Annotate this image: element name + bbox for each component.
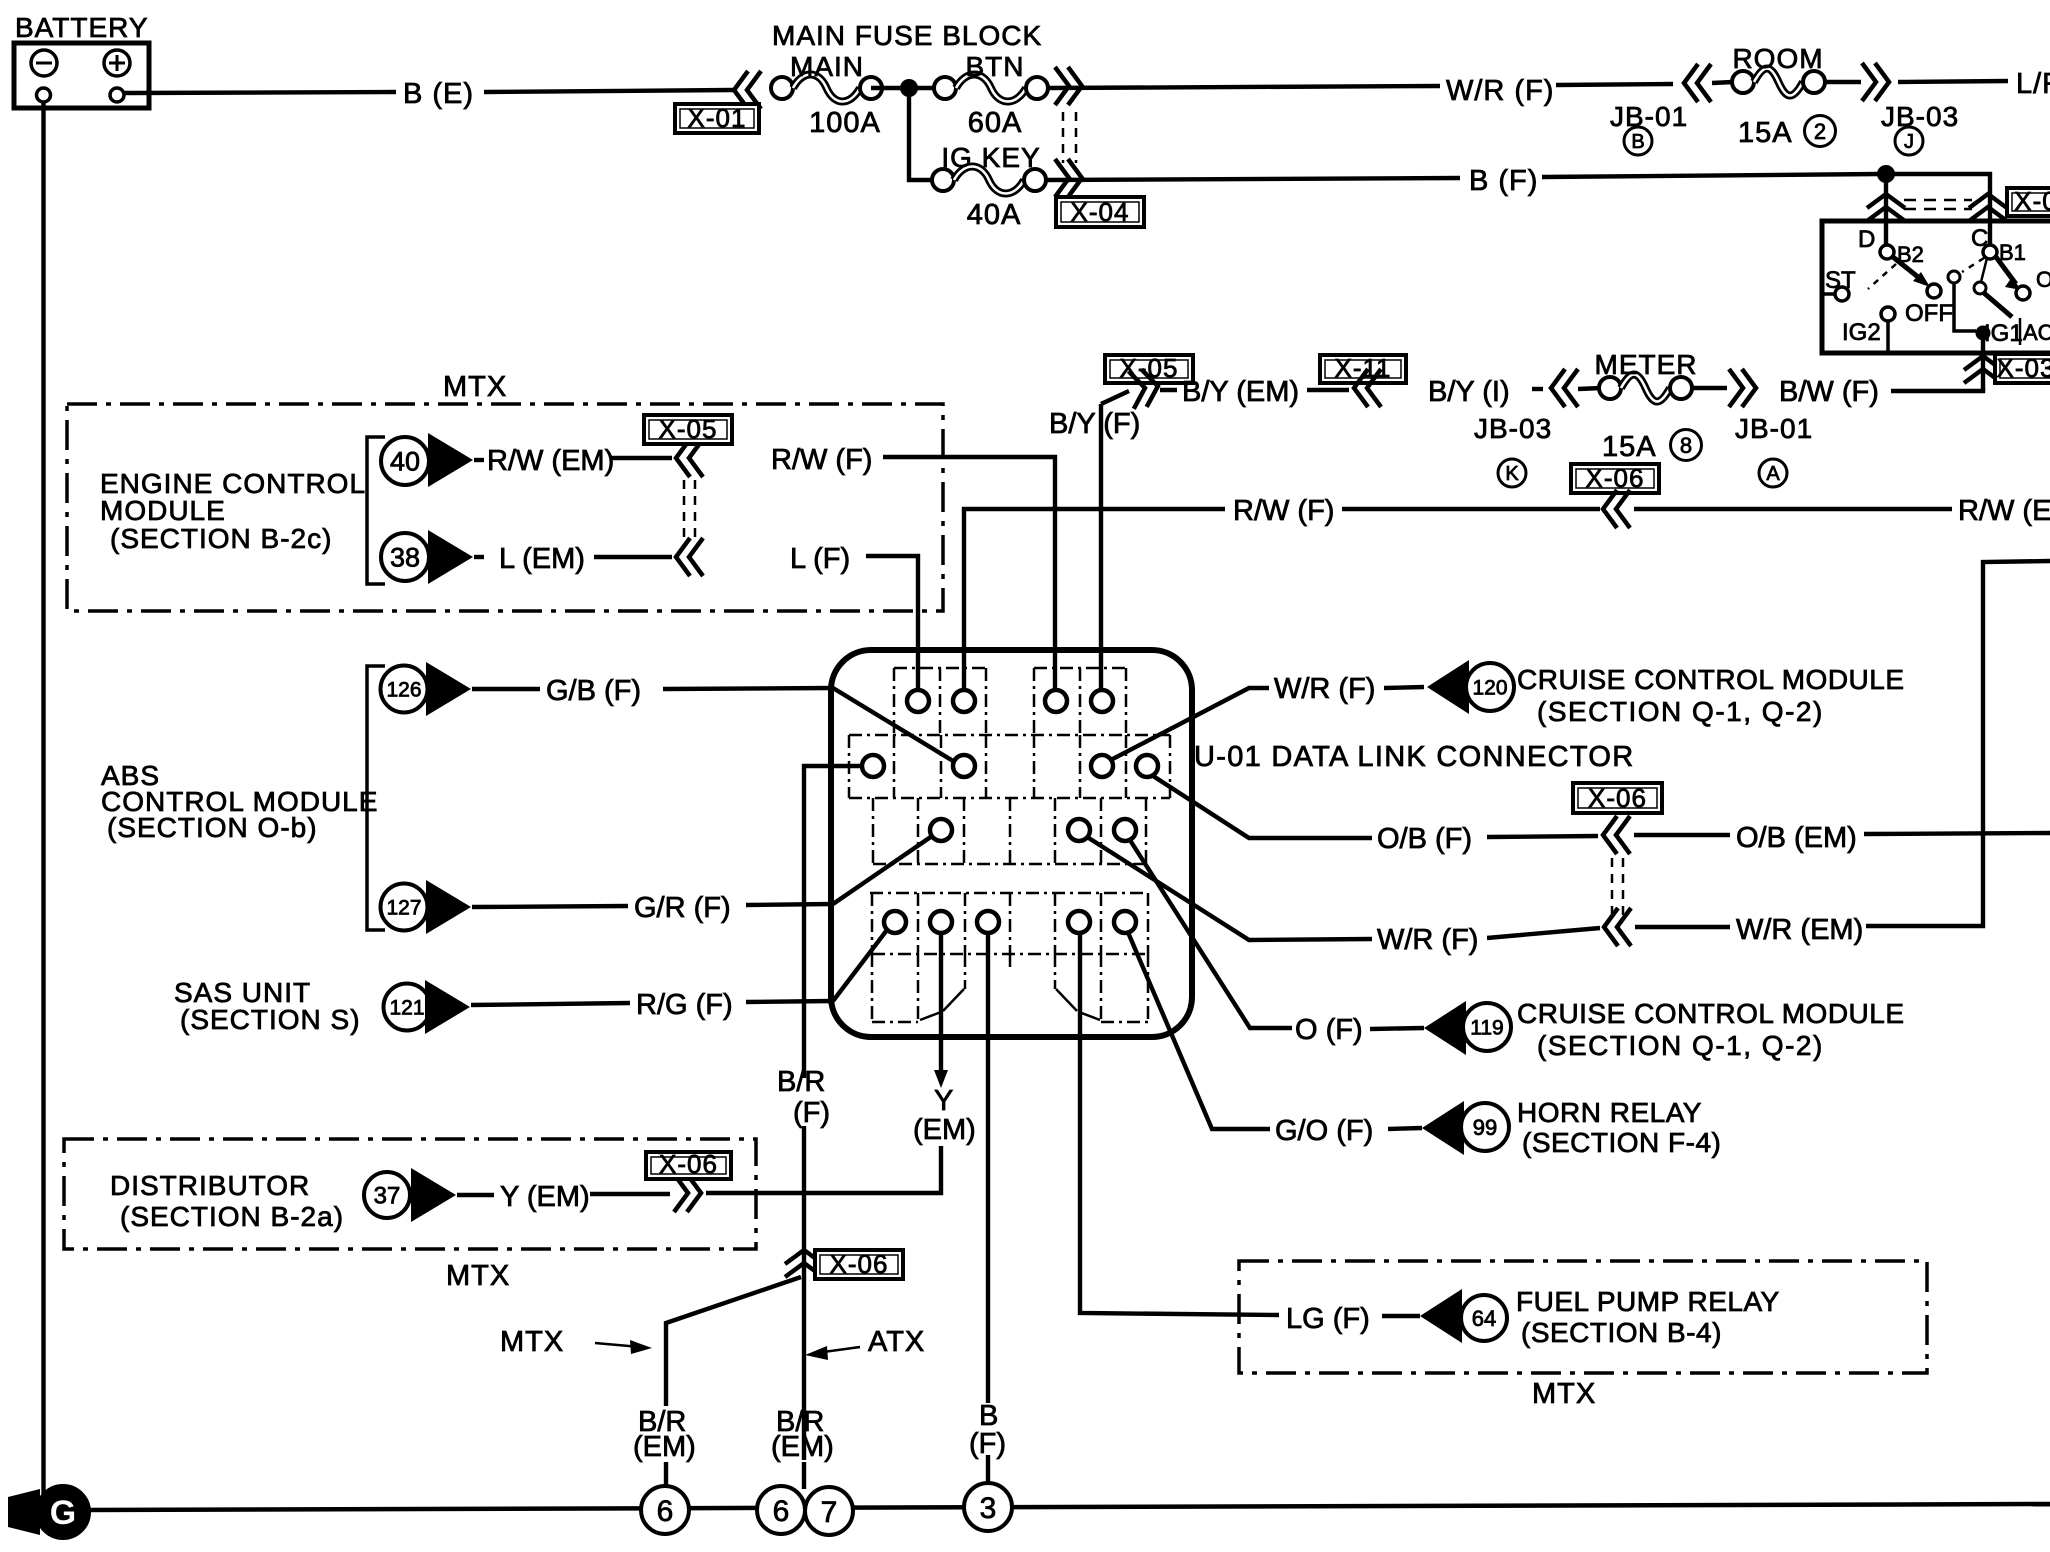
connector X-05 chevron rw: [676, 439, 703, 477]
svg-text:HORN RELAY: HORN RELAY: [1517, 1097, 1702, 1128]
svg-text:(SECTION Q-1, Q-2): (SECTION Q-1, Q-2): [1537, 696, 1824, 727]
svg-text:100A: 100A: [809, 107, 881, 139]
wire B/Y em to X-11: [1307, 388, 1349, 392]
ABS pin 127 arrow: [426, 880, 471, 934]
distributor pin 37: [364, 1172, 410, 1218]
ground circle 7: [805, 1487, 853, 1535]
ECM pin 40: [381, 437, 429, 485]
svg-text:40: 40: [390, 447, 420, 477]
svg-text:(SECTION B-2a): (SECTION B-2a): [120, 1201, 344, 1232]
fuel pump dashed box: [1239, 1261, 1927, 1373]
svg-text:(F): (F): [793, 1097, 830, 1129]
connector X-05 chevron L: [676, 538, 703, 576]
wire B/Y i stub: [1532, 387, 1543, 391]
svg-text:8: 8: [1680, 433, 1692, 458]
wire room fuse stub left: [1712, 82, 1733, 83]
ground symbol G: [8, 1489, 40, 1535]
wire W/R to cruise diagonal: [1105, 688, 1269, 763]
wire room fuse stub right: [1824, 80, 1861, 84]
svg-text:99: 99: [1473, 1115, 1497, 1140]
ABS pin 127: [381, 884, 428, 931]
svg-text:X-01: X-01: [688, 103, 747, 133]
DLC pin r2c3: [1091, 755, 1113, 777]
wire W/R to arrow: [1384, 687, 1424, 688]
label circled 8: [1671, 430, 1702, 461]
svg-text:METER: METER: [1595, 349, 1698, 380]
svg-text:64: 64: [1472, 1306, 1496, 1331]
connector X-06 chevron atx: [785, 1250, 823, 1277]
connector X-06 label dist: [646, 1152, 731, 1179]
wire R/W (F) long right: [1634, 507, 1952, 511]
cruise 120 arrow: [1427, 660, 1469, 714]
wire O/B mid: [1487, 836, 1598, 837]
battery B-01 box: [14, 43, 149, 108]
svg-text:126: 126: [386, 679, 421, 702]
DLC U-01 outline: [831, 650, 1192, 1037]
svg-text:O/B (F): O/B (F): [1377, 823, 1472, 855]
svg-text:W/R (F): W/R (F): [1446, 75, 1554, 107]
svg-text:B/Y (F): B/Y (F): [1049, 408, 1140, 440]
connector X-04 label: [1056, 197, 1144, 227]
wire R/W (F) to DLC pin3: [883, 457, 1055, 690]
ABS pin 126 arrow: [426, 662, 471, 716]
fuse METER 15A: [1599, 377, 1621, 399]
wire W/R (F) left: [1048, 86, 1440, 88]
svg-text:MTX: MTX: [1532, 1378, 1596, 1410]
wire to L/R right edge: [1898, 81, 2008, 82]
connector X-04 dashed link: [1062, 112, 1065, 163]
ignition pin IG2: [1881, 307, 1895, 321]
connector X-06 chevron wr: [1604, 908, 1631, 946]
ABS pin bracket: [367, 666, 385, 930]
svg-text:JB-01: JB-01: [1610, 101, 1688, 132]
ignition junction IG1: [1976, 326, 1991, 341]
wire B/Y em stub: [1160, 388, 1177, 392]
connector X-06 chevron ob: [1603, 816, 1630, 854]
svg-text:O/B (EM): O/B (EM): [1736, 822, 1857, 854]
ABS pin 126: [381, 666, 428, 713]
wire Y em stub: [457, 1193, 494, 1197]
svg-text:B/Y (EM): B/Y (EM): [1182, 376, 1299, 408]
wire O diagonal: [1128, 837, 1292, 1028]
wire Y stub down-arrow: [939, 933, 943, 1073]
battery positive pin: [110, 88, 124, 102]
wire atx to ground: [802, 1462, 806, 1489]
wire B F vertical: [986, 933, 990, 1403]
junction dot main/btn: [900, 79, 918, 97]
wire Y em to stub up: [706, 1146, 941, 1193]
svg-text:119: 119: [1470, 1017, 1503, 1040]
DLC pin r2c2: [953, 755, 975, 777]
wire B (F) to ignition C: [1893, 174, 1990, 246]
wire meter fuse stub right: [1691, 386, 1727, 390]
svg-text:R/W (EM: R/W (EM: [1958, 495, 2050, 527]
svg-text:(SECTION S): (SECTION S): [180, 1004, 361, 1035]
svg-text:A: A: [1766, 463, 1780, 485]
svg-text:FUEL PUMP RELAY: FUEL PUMP RELAY: [1516, 1286, 1780, 1317]
wire R/G diagonal: [833, 926, 890, 1001]
svg-text:(SECTION Q-1, Q-2): (SECTION Q-1, Q-2): [1537, 1030, 1824, 1061]
svg-text:BTN: BTN: [966, 51, 1025, 82]
wire main-btn: [871, 86, 945, 90]
fuse ROOM 15A: [1732, 71, 1754, 93]
svg-text:G/B (F): G/B (F): [546, 675, 641, 707]
svg-text:IG2: IG2: [1842, 319, 1881, 346]
svg-text:X-06: X-06: [1586, 463, 1645, 493]
svg-text:G/R (F): G/R (F): [634, 892, 731, 924]
wire Y em: [590, 1192, 670, 1196]
DLC pin top1: [907, 690, 929, 712]
fuse IG KEY 40A: [932, 169, 954, 191]
label circled 2: [1805, 116, 1836, 147]
connector X-05 dashed link ecm: [683, 480, 686, 537]
wire R/W (F) long left: [964, 509, 1225, 690]
cruise 119 circle: [1463, 1003, 1511, 1051]
SAS pin 121 arrow: [425, 980, 470, 1034]
svg-text:X-04: X-04: [1071, 197, 1130, 227]
svg-text:R/W (F): R/W (F): [1233, 495, 1334, 527]
wire B (E) from battery: [124, 92, 396, 93]
svg-text:6: 6: [773, 1495, 790, 1528]
svg-text:W/R (F): W/R (F): [1377, 924, 1478, 956]
wire G/B stub: [472, 687, 540, 691]
svg-text:B/R: B/R: [777, 1066, 825, 1098]
wire O/B em right: [1864, 833, 2050, 834]
connector JB-01 chevron: [1684, 64, 1711, 102]
svg-text:37: 37: [374, 1183, 401, 1210]
label circled K: [1498, 459, 1526, 487]
svg-text:15A: 15A: [1738, 117, 1793, 149]
svg-text:MTX: MTX: [446, 1260, 510, 1292]
svg-text:B/W (F): B/W (F): [1779, 376, 1879, 408]
wire W/R em right: [1866, 561, 2050, 926]
wire LG vertical: [1080, 933, 1279, 1315]
wire LG to arrow: [1382, 1314, 1420, 1318]
ignition wiper C-ACC: [1996, 257, 2016, 284]
svg-text:B (F): B (F): [1469, 165, 1538, 197]
connector X-03 label (clipped): [1995, 354, 2050, 383]
connector X-06 label rw: [1571, 464, 1659, 493]
DLC pin r4c5: [1114, 911, 1136, 933]
svg-text:CRUISE CONTROL MODULE: CRUISE CONTROL MODULE: [1517, 664, 1905, 695]
DLC pin r4c4: [1068, 911, 1090, 933]
svg-text:(SECTION B-2c): (SECTION B-2c): [110, 523, 332, 554]
connector X-05 label ecm: [644, 415, 732, 444]
svg-text:(SECTION F-4): (SECTION F-4): [1522, 1127, 1721, 1158]
ignition pin mid2: [1974, 282, 1986, 294]
wire meter fuse stub left: [1578, 388, 1601, 389]
ignition pin C: [1983, 245, 1997, 259]
ignition link C-mid2: [1981, 258, 1987, 282]
svg-text:DISTRIBUTOR: DISTRIBUTOR: [110, 1170, 310, 1201]
svg-text:OFF: OFF: [1905, 300, 1953, 327]
wire O/B em left: [1634, 833, 1730, 837]
connector X-08 chevron on C branch: [1969, 194, 2007, 221]
ground circle 6 mtx: [641, 1486, 689, 1534]
svg-text:BATTERY: BATTERY: [15, 12, 149, 43]
svg-text:O (F): O (F): [1295, 1014, 1363, 1046]
svg-text:6: 6: [657, 1495, 674, 1528]
svg-text:O: O: [2036, 267, 2050, 292]
svg-text:IG1: IG1: [1984, 320, 2023, 347]
ECM dashed box: [67, 404, 943, 611]
wire B (F) to ignition D: [1884, 181, 1888, 246]
svg-text:(EM): (EM): [913, 1114, 976, 1146]
svg-text:(EM): (EM): [771, 1431, 834, 1463]
DLC pin top4: [1091, 690, 1113, 712]
distributor pin 37 arrow: [411, 1168, 456, 1222]
svg-text:G/O (F): G/O (F): [1275, 1115, 1373, 1147]
wire G/R stub: [472, 906, 628, 907]
svg-text:(SECTION O-b): (SECTION O-b): [107, 812, 318, 843]
svg-text:L (F): L (F): [790, 543, 850, 575]
label circled B: [1624, 127, 1652, 155]
svg-text:121: 121: [389, 997, 424, 1020]
connector X-04 chevron on B wire: [1055, 159, 1082, 197]
wire R/W (F) long mid: [1342, 507, 1600, 511]
wire O to arrow: [1370, 1028, 1424, 1029]
wire G/O diagonal: [1127, 930, 1270, 1129]
connector X-08 dashed link: [1904, 199, 1972, 202]
battery negative pin: [37, 88, 51, 102]
ignition switch box: [1822, 221, 2050, 353]
ECM pin bracket: [367, 437, 385, 584]
fuel 64 arrow: [1420, 1289, 1462, 1343]
wire G/R diagonal: [833, 834, 935, 904]
svg-text:R/W (EM): R/W (EM): [487, 445, 614, 477]
svg-text:MTX: MTX: [443, 371, 507, 403]
battery negative terminal: [31, 50, 57, 76]
connector X-08 chevron on D branch: [1867, 194, 1905, 221]
battery positive terminal: [104, 50, 130, 76]
svg-text:ACC: ACC: [2023, 320, 2050, 345]
ignition wiper D-OFF: [1893, 257, 1923, 281]
wire W/R em left: [1635, 925, 1730, 929]
svg-text:J: J: [1904, 131, 1914, 153]
DLC pin r3c2: [1068, 819, 1090, 841]
DLC pin r3c3: [1114, 819, 1136, 841]
svg-text:IG KEY: IG KEY: [941, 142, 1040, 173]
wire G/R (F): [746, 904, 833, 905]
fuse BTN 60A: [934, 77, 956, 99]
wire R/G stub: [471, 1003, 630, 1005]
connector X-11 label: [1320, 355, 1406, 383]
svg-text:R/W (F): R/W (F): [771, 444, 872, 476]
svg-text:LG (F): LG (F): [1286, 1303, 1370, 1335]
DLC internal cavities: [894, 667, 986, 670]
connector X-06 chevron dist: [674, 1174, 701, 1212]
connector X-06 label atx: [815, 1250, 903, 1279]
ground circle 6 atx: [757, 1486, 805, 1534]
ECM pin 38 arrow: [428, 530, 473, 584]
svg-text:X-06: X-06: [830, 1249, 889, 1279]
connector X-03 chevron: [1964, 356, 2002, 383]
wire R/G (F): [746, 1001, 833, 1002]
svg-text:7: 7: [821, 1496, 838, 1529]
wire junction to IG KEY fuse: [909, 88, 932, 180]
svg-text:B1: B1: [1999, 240, 2026, 265]
connector X-05 chevron top: [1128, 367, 1160, 408]
wire B (E) to X-01: [484, 90, 733, 92]
wire G/O to arrow: [1388, 1128, 1422, 1129]
svg-text:120: 120: [1472, 677, 1507, 700]
svg-text:K: K: [1505, 463, 1519, 485]
svg-text:3: 3: [980, 1492, 997, 1525]
wire B/Y bend: [1101, 391, 1129, 404]
svg-text:X-06: X-06: [659, 1149, 718, 1179]
wire mtx to ground 6: [664, 1462, 668, 1487]
wire L (EM) stub: [474, 555, 484, 559]
svg-text:CRUISE CONTROL MODULE: CRUISE CONTROL MODULE: [1517, 998, 1905, 1029]
junction dot B (F): [1877, 165, 1895, 183]
wire O/B diagonal: [1150, 774, 1372, 838]
wire B to ground 3: [986, 1455, 990, 1483]
svg-text:(EM): (EM): [633, 1431, 696, 1463]
svg-text:JB-03: JB-03: [1474, 413, 1552, 444]
connector X-01 chevron: [734, 71, 761, 109]
wire R/W (EM) stub: [474, 458, 484, 462]
ignition pin OFF: [1927, 284, 1941, 298]
wire B (F) left: [1046, 178, 1460, 180]
fuel 64 circle: [1461, 1295, 1507, 1341]
svg-text:B: B: [1631, 131, 1644, 153]
wire MTX branch diagonal: [666, 1277, 801, 1406]
svg-text:W/R (F): W/R (F): [1274, 673, 1375, 705]
svg-text:U-01 DATA LINK CONNECTOR: U-01 DATA LINK CONNECTOR: [1194, 741, 1635, 773]
svg-text:G: G: [50, 1494, 76, 1532]
wire B (F) right: [1542, 174, 1879, 177]
svg-text:127: 127: [386, 897, 421, 920]
ignition route mid1 to IG1: [1954, 283, 1976, 331]
DLC pin top2: [953, 690, 975, 712]
connector JB-01 chevron meter: [1729, 369, 1756, 407]
wire L (F) to DLC pin1: [866, 556, 918, 690]
ignition dashed contact C: [1962, 258, 1984, 272]
DLC pin r4c3: [977, 911, 999, 933]
wire W/R (F) mid: [1556, 84, 1673, 85]
wire B/R atx lower: [802, 1126, 806, 1460]
wire W/R em mid: [1487, 928, 1600, 938]
connector JB-03 chevron: [1862, 63, 1889, 101]
svg-text:MAIN: MAIN: [790, 51, 864, 82]
ground circle 3: [964, 1483, 1012, 1531]
DLC pin r3c1: [930, 819, 952, 841]
wire R/W em: [611, 456, 672, 460]
svg-text:ROOM: ROOM: [1732, 43, 1823, 74]
svg-text:X-06: X-06: [1588, 783, 1647, 813]
svg-text:MODULE: MODULE: [100, 495, 226, 526]
wire B/W (F): [1891, 388, 1983, 391]
svg-text:L (EM): L (EM): [499, 543, 585, 575]
wire L em: [594, 555, 672, 559]
fuse MAIN 100A: [771, 77, 793, 99]
connector X-06 dashed link ob: [1611, 858, 1614, 916]
cruise 119 arrow: [1424, 1001, 1466, 1055]
svg-text:B (E): B (E): [403, 78, 474, 110]
svg-text:JB-03: JB-03: [1881, 101, 1959, 132]
connector JB-03 chevron meter: [1551, 369, 1578, 407]
wire B/Y (F) vertical: [1099, 404, 1103, 690]
svg-text:X-0: X-0: [2014, 186, 2050, 216]
ignition pin ACC: [2016, 286, 2030, 300]
cruise 120 circle: [1466, 663, 1514, 711]
connector X-11 chevron: [1354, 369, 1381, 407]
connector X-08 label (clipped): [2007, 188, 2050, 216]
ignition divider: [2019, 318, 2022, 345]
svg-text:38: 38: [390, 543, 420, 573]
DLC pin r4c1: [884, 911, 906, 933]
svg-text:40A: 40A: [967, 199, 1022, 231]
svg-text:2: 2: [1814, 119, 1826, 144]
horn 99 arrow: [1422, 1101, 1464, 1155]
ignition wiper mid2-IG1: [1984, 293, 2012, 317]
horn 99 circle: [1461, 1103, 1509, 1151]
ECM pin 38: [381, 533, 429, 581]
ignition dashed contact: [1868, 264, 1896, 289]
wire IG1 down: [1981, 340, 1985, 391]
svg-text:MTX: MTX: [500, 1326, 564, 1358]
wire W/R em diagonal: [1084, 835, 1372, 940]
svg-text:X-03: X-03: [1997, 353, 2050, 383]
wire B/R F branch: [804, 766, 862, 1078]
wire G/B (F): [663, 688, 833, 689]
svg-text:X-05: X-05: [659, 414, 718, 444]
connector X-04 chevron on W/R wire: [1055, 67, 1082, 105]
svg-text:B/Y (I): B/Y (I): [1428, 376, 1510, 408]
svg-text:Y: Y: [934, 1085, 953, 1117]
ECM pin 40 arrow: [428, 433, 473, 487]
DLC pin r2c1: [862, 755, 884, 777]
connector X-05 label top: [1105, 355, 1193, 383]
label circled A: [1759, 459, 1787, 487]
svg-text:(SECTION B-4): (SECTION B-4): [1521, 1317, 1722, 1348]
svg-text:ATX: ATX: [868, 1326, 925, 1358]
svg-text:D: D: [1858, 226, 1875, 253]
svg-text:R/G (F): R/G (F): [636, 989, 733, 1021]
wire battery to ground G: [41, 102, 45, 1494]
DLC pin top3: [1045, 690, 1067, 712]
SAS pin 121: [384, 984, 431, 1031]
connector X-06 label ob: [1573, 783, 1662, 813]
wire G/B diagonal: [833, 688, 958, 764]
ignition pin mid1: [1948, 271, 1960, 283]
label circled J: [1895, 127, 1923, 155]
distributor dashed box: [64, 1139, 756, 1249]
ignition pin D: [1880, 245, 1894, 259]
ignition pin ST: [1835, 287, 1849, 301]
svg-text:JB-01: JB-01: [1735, 413, 1813, 444]
DLC pin r2c4: [1136, 755, 1158, 777]
connector X-06 chevron rw: [1603, 490, 1630, 528]
svg-text:60A: 60A: [968, 107, 1023, 139]
DLC pin r4c2: [930, 911, 952, 933]
svg-text:Y (EM): Y (EM): [500, 1181, 590, 1213]
svg-text:W/R (EM): W/R (EM): [1736, 914, 1863, 946]
svg-text:MAIN FUSE BLOCK: MAIN FUSE BLOCK: [772, 20, 1042, 51]
svg-text:L/R: L/R: [2016, 68, 2050, 100]
svg-text:15A: 15A: [1602, 431, 1657, 463]
ground bus line: [86, 1504, 2050, 1510]
connector X-01 label: [675, 104, 759, 133]
